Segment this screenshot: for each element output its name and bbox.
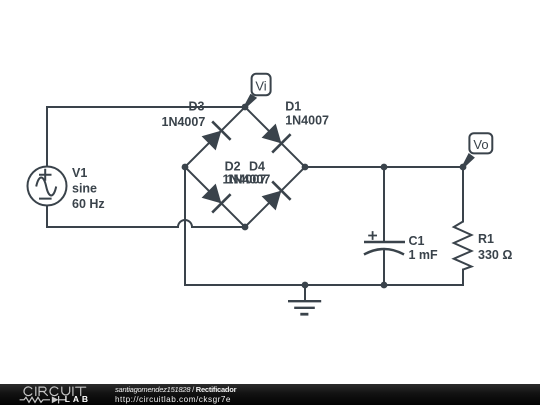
ground xyxy=(288,285,321,314)
label D1 xyxy=(285,99,329,127)
footer logo resistor-diode row xyxy=(20,396,66,404)
svg-text:1N4007: 1N4007 xyxy=(162,115,206,129)
wire bridge edge left-top xyxy=(185,107,245,167)
junction dot ground xyxy=(302,282,309,289)
resistor R1 xyxy=(454,222,472,270)
svg-text:330 Ω: 330 Ω xyxy=(478,248,512,262)
footer logo CIRCUIT xyxy=(24,387,86,396)
junction dot C1 bottom xyxy=(381,282,388,289)
wire top horizontal to bridge top node xyxy=(47,106,245,108)
svg-text:sine: sine xyxy=(72,181,97,195)
svg-text:Vo: Vo xyxy=(473,137,488,152)
svg-text:D4: D4 xyxy=(249,160,265,174)
svg-text:D3: D3 xyxy=(189,100,205,114)
junction dot bridge bottom xyxy=(242,224,249,231)
svg-text:LAB: LAB xyxy=(65,394,91,404)
junction dot C1 top xyxy=(381,164,388,171)
svg-text:1N4007: 1N4007 xyxy=(227,173,271,187)
svg-text:C1: C1 xyxy=(409,234,425,248)
svg-text:D1: D1 xyxy=(285,99,301,113)
voltage source V1 xyxy=(28,167,67,206)
junction dot bridge right xyxy=(302,164,309,171)
label C1 xyxy=(409,234,439,262)
svg-text:R1: R1 xyxy=(478,232,494,246)
wire bridge edge bottom-right xyxy=(245,167,305,227)
svg-text:60 Hz: 60 Hz xyxy=(72,197,105,211)
svg-text:1N4007: 1N4007 xyxy=(285,114,329,128)
svg-text:D2: D2 xyxy=(225,160,241,174)
wire R1 top lead xyxy=(462,167,464,222)
svg-text:V1: V1 xyxy=(72,166,87,180)
node Vi flag xyxy=(244,74,271,108)
svg-text:1 mF: 1 mF xyxy=(409,248,439,262)
diode D2 xyxy=(202,184,231,213)
wire R1 bottom lead xyxy=(462,270,464,285)
svg-text:santiagomendez151828 / Rectifi: santiagomendez151828 / Rectificador xyxy=(115,385,237,394)
node Vo flag xyxy=(462,133,492,168)
label V1 value xyxy=(72,166,105,211)
wire bridge edge top-right xyxy=(245,107,305,167)
diode D1 xyxy=(262,124,291,153)
wire V1 bottom horizontal with hop xyxy=(47,220,245,227)
diode D3 xyxy=(202,121,231,150)
wire V1 top lead up xyxy=(46,107,48,167)
capacitor C1 xyxy=(364,231,405,254)
wire C1 top lead xyxy=(383,167,385,242)
label R1 xyxy=(478,232,512,262)
diode D4 xyxy=(262,181,291,210)
svg-text:http://circuitlab.com/cksgr7e: http://circuitlab.com/cksgr7e xyxy=(115,395,231,404)
junction dot bridge left xyxy=(182,164,189,171)
wire left node down and bottom rail xyxy=(185,167,463,285)
footer bar xyxy=(0,384,540,405)
junction dot bridge top xyxy=(242,104,249,111)
wire V1 bottom lead down xyxy=(46,206,48,228)
junction dot Vo node xyxy=(460,164,467,171)
wire right node to output xyxy=(305,166,463,168)
wire C1 bottom lead xyxy=(383,250,385,285)
svg-text:Vi: Vi xyxy=(255,78,266,93)
label D3 xyxy=(162,100,206,130)
wire bridge edge left-bottom xyxy=(185,167,245,227)
